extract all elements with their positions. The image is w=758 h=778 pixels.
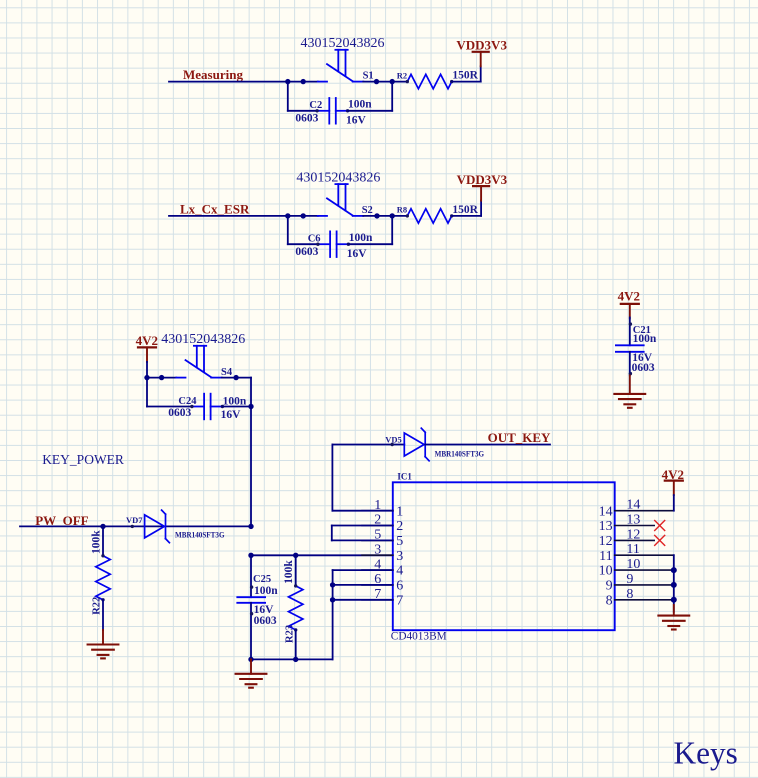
svg-text:C25: C25 <box>253 574 271 585</box>
svg-text:C24: C24 <box>178 396 197 407</box>
svg-text:11: 11 <box>599 549 612 564</box>
wire stem to right ground <box>673 605 675 616</box>
power port VDD3V3 (section 2) <box>473 186 489 201</box>
wire C24 right to main vertical <box>222 406 251 408</box>
wire switch S2 to R8 <box>363 215 407 217</box>
svg-text:3: 3 <box>396 549 403 564</box>
wire PW_OFF junction down to R22 <box>102 526 104 555</box>
pin 2 stub (IC1 left) <box>362 525 393 527</box>
pin 7 stub (IC1 left) <box>362 599 393 601</box>
svg-text:100k: 100k <box>90 530 102 554</box>
wire main vertical C24 row to PW_OFF row <box>250 407 252 527</box>
svg-text:3: 3 <box>374 542 381 557</box>
svg-text:R22: R22 <box>92 597 103 615</box>
power port 4V2 (C21) <box>621 304 639 319</box>
junction at S2 output <box>374 213 379 218</box>
wire R23 bottom <box>295 630 297 660</box>
wire R23 top <box>295 555 297 586</box>
svg-text:100n: 100n <box>349 232 373 244</box>
svg-text:R2: R2 <box>397 70 407 80</box>
svg-text:150R: 150R <box>452 204 478 216</box>
svg-text:7: 7 <box>396 593 403 608</box>
junction pin10 row <box>671 567 677 573</box>
svg-text:VDD3V3: VDD3V3 <box>456 38 507 53</box>
wire Measuring horizontal <box>169 81 318 83</box>
wire pin1 horizontal from riser <box>332 510 392 512</box>
svg-text:Measuring: Measuring <box>183 67 243 82</box>
switch S2 pushbutton <box>318 184 364 216</box>
wire R8 to VDD3V3 <box>452 215 481 217</box>
ground below C21 <box>614 394 645 408</box>
junction pin9 row <box>671 582 677 588</box>
wire pin3 row horizontal to IC <box>251 554 393 556</box>
capacitor C6 <box>316 231 350 257</box>
svg-text:16V: 16V <box>347 248 368 260</box>
svg-text:100n: 100n <box>348 99 372 111</box>
junction at C6 right branch <box>390 213 395 218</box>
svg-text:R23: R23 <box>284 625 295 643</box>
junction at S1 output <box>374 79 379 84</box>
pin dot VD7 anode <box>131 525 134 528</box>
no-connect X on pin 12 <box>655 535 665 545</box>
junction at 4V2 corner <box>144 375 149 380</box>
svg-text:VDD3V3: VDD3V3 <box>457 172 508 187</box>
pin 6 stub (IC1 left) <box>362 584 393 586</box>
wire R2 to VDD3V3 <box>452 81 481 83</box>
ground below pin8 <box>658 616 689 630</box>
svg-text:0603: 0603 <box>295 246 318 258</box>
junction bottom at C25 <box>248 657 253 662</box>
resistor R8 <box>406 209 454 223</box>
wire R22 to ground <box>102 600 104 630</box>
wire C2 branch left vertical <box>287 82 289 111</box>
switch S1 pushbutton <box>318 50 364 82</box>
junction C24 to main vertical <box>248 404 253 409</box>
svg-text:S2: S2 <box>362 205 373 216</box>
wire 4V2 to S4 row <box>146 362 148 378</box>
svg-text:10: 10 <box>626 557 640 572</box>
svg-text:16V: 16V <box>221 409 242 421</box>
svg-text:R8: R8 <box>397 205 407 215</box>
junction PW_OFF wire to main vertical <box>248 524 253 529</box>
svg-text:C2: C2 <box>309 100 322 111</box>
pin 12 stub (IC1 right) <box>615 539 655 541</box>
wire pin11 to ground vertical <box>673 555 675 612</box>
svg-text:VD7: VD7 <box>126 515 143 525</box>
pin 5 stub (IC1 left) <box>362 539 393 541</box>
capacitor C21 <box>616 322 644 375</box>
wire bottom horizontal C25/R23 to IC pins <box>251 658 333 660</box>
wire C2 branch right vertical <box>391 82 393 111</box>
power port 4V2 (S4 section) <box>138 347 156 362</box>
svg-text:150R: 150R <box>452 70 478 82</box>
junction on Lx_Cx_ESR wire <box>301 213 306 218</box>
svg-text:1: 1 <box>396 504 403 519</box>
wire Lx_Cx_ESR horizontal <box>169 215 318 217</box>
wire C6 branch left horizontal <box>288 243 318 245</box>
svg-text:16V: 16V <box>346 115 367 127</box>
op-amp IC1 CD4013BM body <box>393 482 615 630</box>
svg-text:430152043826: 430152043826 <box>301 36 385 51</box>
svg-text:0603: 0603 <box>168 407 191 419</box>
junction PW_OFF to R22 <box>100 524 105 529</box>
svg-text:4V2: 4V2 <box>136 333 158 348</box>
resistor R22 <box>96 554 110 601</box>
svg-text:0603: 0603 <box>254 615 277 627</box>
svg-text:8: 8 <box>606 593 613 608</box>
pin 9 stub (IC1 right) <box>615 584 674 586</box>
wire PW_OFF horizontal <box>20 525 251 527</box>
junction at S4 output <box>233 375 238 380</box>
wire C6 branch left vertical <box>287 216 289 244</box>
pin 13 stub (IC1 right) <box>615 525 655 527</box>
wire switch S1 to R2 <box>363 81 407 83</box>
svg-text:430152043826: 430152043826 <box>161 332 245 347</box>
svg-text:9: 9 <box>606 579 613 594</box>
junction on Lx_Cx_ESR wire (C6 branch) <box>285 213 290 218</box>
resistor R2 <box>406 74 454 88</box>
pin 10 stub (IC1 right) <box>615 569 674 571</box>
svg-text:11: 11 <box>626 542 639 557</box>
wire C21 to ground <box>629 375 631 394</box>
junction at pin7 row <box>330 597 335 602</box>
svg-text:S1: S1 <box>363 71 374 82</box>
wire 4V2 to C21 <box>629 318 631 346</box>
wire 4V2 down to pin14 <box>673 495 675 511</box>
svg-text:S4: S4 <box>221 367 233 378</box>
svg-text:4: 4 <box>396 564 403 579</box>
svg-text:Lx_Cx_ESR: Lx_Cx_ESR <box>180 202 250 217</box>
svg-text:8: 8 <box>626 587 633 602</box>
svg-text:12: 12 <box>626 527 640 542</box>
svg-text:KEY_POWER: KEY_POWER <box>42 452 124 467</box>
wire up to IC pin4 <box>332 570 334 659</box>
wire C24 branch left horizontal <box>147 406 192 408</box>
svg-text:C6: C6 <box>308 234 321 245</box>
switch S4 pushbutton <box>176 346 222 378</box>
wire pin2-pin5 loop <box>332 525 393 527</box>
svg-text:OUT_KEY: OUT_KEY <box>488 430 551 445</box>
wire main vertical down to C25 <box>250 555 252 597</box>
junction main vertical at pin3 row <box>248 553 253 558</box>
svg-text:MBR140SFT3G: MBR140SFT3G <box>435 450 485 459</box>
no-connect X on pin 13 <box>655 521 665 531</box>
wire pin1 riser vertical <box>331 445 333 511</box>
capacitor C2 <box>315 98 349 124</box>
pin 4 stub (IC1 left) <box>362 569 393 571</box>
svg-text:MBR140SFT3G: MBR140SFT3G <box>175 530 225 539</box>
svg-text:0603: 0603 <box>632 362 655 374</box>
capacitor C25 <box>237 585 265 659</box>
wire switch S4 to main vertical <box>222 377 251 379</box>
svg-text:100k: 100k <box>283 560 295 584</box>
pin 1 stub (IC1 left) <box>362 510 393 512</box>
svg-text:CD4013BM: CD4013BM <box>391 631 447 643</box>
svg-text:VD5: VD5 <box>385 434 402 444</box>
svg-text:100n: 100n <box>633 333 657 345</box>
svg-text:6: 6 <box>396 579 403 594</box>
wire C6 branch right vertical <box>391 216 393 244</box>
junction R23 top <box>293 553 298 558</box>
junction on Measuring wire (C2 branch) <box>285 79 290 84</box>
pin dot VD5 anode <box>391 443 394 446</box>
power port 4V2 (pin 14) <box>665 481 683 496</box>
svg-text:Keys: Keys <box>674 736 738 771</box>
diode VD5 MBR140SFT3G <box>404 428 429 461</box>
pin 3 stub (IC1 left) <box>362 554 393 556</box>
svg-text:4V2: 4V2 <box>618 289 640 304</box>
pin 14 stub (IC1 right) <box>615 510 674 512</box>
pin 11 stub (IC1 right) <box>615 554 674 556</box>
wire C2 branch left horizontal <box>288 110 317 112</box>
svg-text:5: 5 <box>396 534 403 549</box>
junction at C2 right branch <box>390 79 395 84</box>
svg-text:14: 14 <box>626 498 640 513</box>
junction at pin6 row <box>330 582 335 587</box>
junction on S4 input wire <box>159 375 164 380</box>
svg-text:IC1: IC1 <box>397 472 412 482</box>
ground below C25 <box>250 659 252 673</box>
wire VD5 anode horizontal <box>332 444 404 446</box>
svg-text:13: 13 <box>599 519 613 534</box>
svg-text:10: 10 <box>599 564 613 579</box>
svg-text:9: 9 <box>626 572 633 587</box>
resistor R23 <box>289 584 303 631</box>
diode VD7 MBR140SFT3G <box>145 510 170 543</box>
wire C24 branch left vertical <box>146 378 148 407</box>
svg-text:12: 12 <box>599 534 613 549</box>
wire C2 branch right horizontal <box>348 110 393 112</box>
junction on Measuring wire <box>301 79 306 84</box>
pin 8 stub (IC1 right) <box>615 599 674 601</box>
junction bottom at R23 <box>293 657 298 662</box>
power port VDD3V3 (top) <box>473 52 489 67</box>
svg-text:0603: 0603 <box>295 113 318 125</box>
wire VD5 cathode to OUT_KEY <box>425 444 550 446</box>
junction pin8 row <box>671 597 677 603</box>
capacitor C24 <box>190 394 224 420</box>
svg-text:2: 2 <box>396 519 403 534</box>
wire C6 branch right horizontal <box>348 243 392 245</box>
wire 4V2 node to switch S4 <box>147 377 176 379</box>
svg-text:14: 14 <box>599 504 613 519</box>
wire pin4 pin6 pin7 connect <box>333 569 393 571</box>
wire main vertical from S4 down to C24 row <box>250 378 252 407</box>
ground below R22 <box>88 645 119 659</box>
svg-text:13: 13 <box>626 513 640 528</box>
svg-text:100n: 100n <box>254 585 278 597</box>
